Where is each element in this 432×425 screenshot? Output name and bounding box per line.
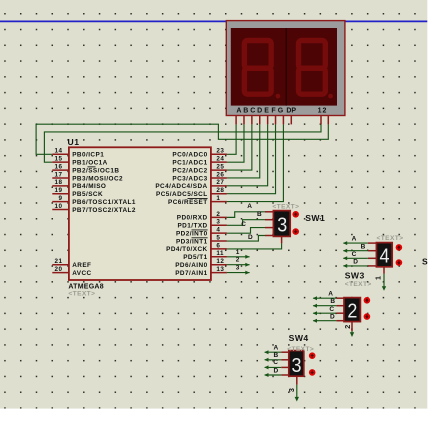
svg-text:PD0/RXD: PD0/RXD: [177, 215, 208, 222]
node D arrow at SW3: [343, 264, 347, 268]
svg-text:3: 3: [292, 355, 302, 377]
svg-text:PC4/ADC4/SDA: PC4/ADC4/SDA: [155, 183, 207, 190]
wire SW3 D lead: [343, 265, 367, 267]
pin PD0/RXD (pin 2) stub: [211, 216, 227, 218]
svg-text:<TEXT>: <TEXT>: [272, 204, 299, 211]
pin PD6/AIN0 (pin 12) stub: [211, 264, 227, 266]
svg-text:11: 11: [216, 250, 224, 257]
node 1 terminal arrow: [245, 255, 249, 259]
SW4 increment button: [309, 352, 316, 359]
svg-text:9: 9: [58, 195, 62, 202]
svg-text:B: B: [274, 352, 279, 359]
wire PD2 to SW1 C: [227, 228, 265, 234]
SW2 decrement button: [364, 313, 371, 320]
wire terminal 2 from PD6: [227, 264, 250, 266]
pin SW3 D stub: [368, 265, 377, 267]
svg-text:PD2/INT0: PD2/INT0: [176, 230, 208, 237]
node C arrow at SW4: [264, 365, 268, 369]
svg-text:B: B: [243, 107, 248, 114]
svg-text:PC3/ADC3: PC3/ADC3: [172, 175, 207, 182]
svg-text:12: 12: [216, 258, 224, 265]
pin PC2/ADC2 (pin 25) stub: [211, 169, 227, 171]
svg-text:PD4/T0/XCK: PD4/T0/XCK: [166, 246, 207, 253]
svg-text:19: 19: [54, 187, 62, 194]
pin PD4/T0/XCK (pin 6) stub: [211, 248, 227, 250]
node 2 down arrow at SW2: [350, 332, 354, 337]
overline SS on PB2: [88, 166, 96, 168]
svg-text:PB2/SS/OC1B: PB2/SS/OC1B: [72, 167, 119, 174]
svg-text:1: 1: [373, 276, 382, 280]
node A arrow at SW2: [313, 296, 317, 300]
pin SW3 A stub: [368, 242, 377, 244]
svg-text:PB7/TOSC2/XTAL2: PB7/TOSC2/XTAL2: [72, 207, 136, 214]
svg-text:<TEXT>: <TEXT>: [345, 281, 372, 288]
svg-text:AREF: AREF: [72, 262, 91, 269]
wire display F to PC5: [227, 124, 276, 193]
wire SW3 C lead: [343, 257, 367, 259]
wire SW2 common terminal 2: [351, 331, 353, 336]
pin SW1 D stub: [265, 235, 273, 237]
svg-text:D: D: [353, 259, 358, 266]
svg-text:A: A: [236, 107, 241, 114]
svg-text:<TEXT>: <TEXT>: [377, 235, 404, 242]
svg-text:14: 14: [54, 148, 62, 155]
svg-text:C: C: [352, 251, 357, 258]
wire display G to PC6: [227, 124, 284, 201]
svg-text:PC5/ADC5/SCL: PC5/ADC5/SCL: [156, 191, 208, 198]
node B arrow at SW2: [313, 304, 317, 308]
wire PB0 to display digit-2 common: [36, 124, 328, 154]
pin SW4 common stub: [296, 376, 298, 385]
pin PD2/INT0 (pin 4) stub: [211, 232, 227, 234]
SW3 increment button: [396, 244, 403, 251]
svg-text:PB5/SCK: PB5/SCK: [72, 191, 103, 198]
pin SW1 common stub: [281, 236, 283, 243]
wire SW3 B lead: [343, 250, 367, 252]
pin PC6/RESET (pin 1) stub: [211, 201, 227, 203]
svg-text:PC1/ADC1: PC1/ADC1: [172, 159, 207, 166]
wire SW4 B lead: [265, 359, 282, 361]
svg-text:2: 2: [347, 301, 357, 323]
node 3 down arrow at SW4: [295, 397, 299, 402]
pin PB3/MOSI/OC2 (pin 17) stub: [52, 177, 69, 179]
svg-text:2: 2: [236, 257, 240, 264]
svg-text:D: D: [257, 107, 262, 114]
wire SW1 common to PD4: [227, 243, 282, 249]
wire PD3 to SW1 D: [227, 236, 265, 242]
node C arrow at SW2: [313, 311, 317, 315]
switch SW4 body: [289, 351, 304, 377]
switch SW2 body: [344, 298, 360, 322]
svg-text:PD5/T1: PD5/T1: [183, 254, 207, 261]
pin SW3 B stub: [368, 250, 377, 252]
svg-text:17: 17: [54, 171, 62, 178]
svg-text:AVCC: AVCC: [72, 270, 91, 277]
pin PB4/MISO (pin 18) stub: [52, 185, 69, 187]
pin SW4 A stub: [281, 351, 289, 353]
svg-text:3: 3: [277, 215, 287, 237]
svg-text:PC2/ADC2: PC2/ADC2: [172, 167, 207, 174]
wire display C to PC2: [227, 124, 252, 170]
svg-text:PB0/ICP1: PB0/ICP1: [72, 152, 104, 159]
svg-text:18: 18: [54, 179, 62, 186]
svg-text:28: 28: [216, 187, 224, 194]
node D arrow at SW2: [313, 319, 317, 323]
svg-text:4: 4: [216, 227, 220, 234]
svg-text:13: 13: [216, 266, 224, 273]
svg-text:B: B: [330, 298, 335, 305]
svg-text:C: C: [250, 107, 255, 114]
pin PB2/SS/OC1B (pin 16) stub: [52, 169, 69, 171]
pin PB6/TOSC1/XTAL1 (pin 9) stub: [52, 201, 69, 203]
svg-text:D: D: [248, 234, 253, 241]
svg-text:D: D: [274, 367, 279, 374]
pin SW2 B stub: [336, 305, 344, 307]
wire display E to PC4: [227, 124, 268, 185]
svg-text:PB6/TOSC1/XTAL1: PB6/TOSC1/XTAL1: [72, 199, 136, 206]
node 3 terminal arrow: [245, 271, 249, 275]
wire SW3 common terminal 1: [383, 274, 385, 287]
wire display B to PC1: [227, 124, 244, 162]
svg-text:2: 2: [343, 325, 352, 329]
svg-text:PB4/MISO: PB4/MISO: [72, 183, 106, 190]
pin PB5/SCK (pin 19) stub: [52, 193, 69, 195]
pin PB1/OC1A (pin 15) stub: [52, 161, 69, 163]
display pin D stub: [259, 116, 261, 125]
pin PC4/ADC4/SDA (pin 27) stub: [211, 185, 227, 187]
svg-text:3: 3: [287, 388, 296, 392]
display digit 1 decimal point: [276, 94, 281, 99]
pin PB7/TOSC2/XTAL2 (pin 10) stub: [52, 208, 69, 210]
pin PD7/AIN1 (pin 13) stub: [211, 272, 227, 274]
wire terminal 3 from PD7: [227, 272, 250, 274]
switch SW1 body: [273, 211, 290, 237]
wire SW4 D lead: [265, 374, 282, 376]
pin SW2 A stub: [336, 297, 344, 299]
svg-text:G: G: [278, 107, 284, 114]
display red panel: [231, 28, 337, 106]
svg-text:SW3: SW3: [345, 271, 365, 281]
svg-text:PD1/TXD: PD1/TXD: [177, 223, 207, 230]
pin PC1/ADC1 (pin 24) stub: [211, 161, 227, 163]
display pin C stub: [251, 116, 253, 125]
svg-text:B: B: [257, 211, 262, 218]
SW1 increment button: [292, 211, 299, 218]
overline INT0 on PD2: [192, 229, 208, 231]
svg-text:ATMEGA8: ATMEGA8: [68, 283, 103, 290]
svg-text:B: B: [361, 243, 366, 250]
node A arrow at SW4: [264, 350, 268, 354]
svg-text:20: 20: [54, 266, 62, 273]
pin PD1/TXD (pin 3) stub: [211, 224, 227, 226]
display digit 2 segments: [299, 41, 326, 95]
SW4 decrement button: [309, 369, 316, 376]
svg-text:C: C: [273, 359, 278, 366]
svg-text:1: 1: [318, 107, 322, 114]
svg-text:3: 3: [236, 265, 240, 272]
svg-text:U1: U1: [68, 137, 80, 147]
pin SW2 C stub: [336, 312, 344, 314]
pin SW1 C stub: [265, 227, 273, 229]
SW3 decrement button: [396, 259, 403, 266]
svg-text:PC0/ADC0: PC0/ADC0: [172, 152, 207, 159]
wire SW3 A lead: [343, 242, 367, 244]
svg-text:F: F: [271, 107, 276, 114]
overline RESET on PC6: [188, 197, 208, 199]
svg-text:25: 25: [216, 163, 224, 170]
op-amp U1 ATMEGA8 microcontroller body: [69, 147, 211, 280]
display digit 2 decimal point: [328, 94, 333, 99]
svg-text:A: A: [274, 345, 279, 352]
display pin 1 stub: [320, 116, 322, 125]
display pin 2 stub: [327, 116, 329, 125]
wire SW2 C lead: [313, 312, 336, 314]
wire SW2 B lead: [313, 305, 336, 307]
svg-text:10: 10: [54, 203, 62, 210]
display pin B stub: [243, 116, 245, 125]
pin PC3/ADC3 (pin 26) stub: [211, 177, 227, 179]
svg-text:2: 2: [323, 107, 327, 114]
svg-text:26: 26: [216, 171, 224, 178]
node A arrow at SW3: [343, 241, 347, 245]
pin PD3/INT1 (pin 5) stub: [211, 240, 227, 242]
svg-text:PC6/RESET: PC6/RESET: [168, 199, 208, 206]
svg-text:PB3/MOSI/OC2: PB3/MOSI/OC2: [72, 175, 123, 182]
wire SW4 common terminal 3: [296, 385, 298, 397]
svg-text:6: 6: [216, 242, 220, 249]
svg-text:1: 1: [236, 249, 240, 256]
display pin E stub: [267, 116, 269, 125]
pin SW2 common stub: [351, 322, 353, 331]
pin SW2 D stub: [336, 320, 344, 322]
svg-text:DP: DP: [286, 107, 296, 114]
svg-text:E: E: [264, 107, 269, 114]
svg-text:23: 23: [216, 148, 224, 155]
pin PC0/ADC0 (pin 23) stub: [211, 153, 227, 155]
svg-text:2: 2: [216, 211, 220, 218]
svg-text:4: 4: [380, 246, 390, 268]
pin AVCC (pin 20) stub: [52, 272, 69, 274]
display pin F stub: [275, 116, 277, 125]
display pin A stub: [235, 116, 237, 125]
pin PB0/ICP1 (pin 14) stub: [52, 153, 69, 155]
svg-text:PD7/AIN1: PD7/AIN1: [175, 270, 207, 277]
wire PD1 to SW1 B: [227, 220, 265, 226]
wire SW4 C lead: [265, 366, 282, 368]
wire PD0 to SW1 A: [227, 212, 265, 218]
display pin G stub: [282, 116, 284, 125]
svg-text:24: 24: [216, 156, 224, 163]
pin SW1 A stub: [265, 211, 273, 213]
svg-text:SW4: SW4: [289, 333, 309, 343]
svg-text:16: 16: [54, 163, 62, 170]
wire SW2 D lead: [313, 320, 336, 322]
node B arrow at SW4: [264, 358, 268, 362]
wire display D to PC3: [227, 124, 260, 178]
svg-text:SW1: SW1: [305, 213, 325, 223]
svg-text:21: 21: [54, 258, 62, 265]
pin PD5/T1 (pin 11) stub: [211, 256, 227, 258]
overline INT1 on PD3: [192, 237, 208, 239]
wire PB1 to display digit-1 common: [44, 124, 321, 162]
wire SW2 A lead: [313, 297, 336, 299]
wire display A to PC0: [227, 124, 236, 154]
svg-text:D: D: [330, 314, 335, 321]
display digit divider: [285, 28, 287, 106]
pin SW3 C stub: [368, 257, 377, 259]
node B arrow at SW3: [343, 249, 347, 253]
pin SW3 common stub: [383, 267, 385, 274]
svg-text:A: A: [352, 235, 357, 242]
display digit 1 segments: [244, 41, 271, 95]
pin SW1 B stub: [265, 219, 273, 221]
svg-text:C: C: [329, 306, 334, 313]
pin SW4 B stub: [281, 359, 289, 361]
svg-text:A: A: [247, 203, 252, 210]
7-segment display module frame: [226, 21, 345, 116]
SW2 increment button: [364, 297, 371, 304]
SW1 decrement button: [292, 228, 299, 235]
wire SW4 A lead: [265, 351, 282, 353]
svg-text:PD6/AIN0: PD6/AIN0: [175, 262, 207, 269]
node C arrow at SW3: [343, 256, 347, 260]
node 2 terminal arrow: [245, 263, 249, 267]
pin PC5/ADC5/SCL (pin 28) stub: [211, 193, 227, 195]
display pin DP stub: [290, 116, 292, 125]
pin AREF (pin 21) stub: [52, 264, 69, 266]
svg-text:PB1/OC1A: PB1/OC1A: [72, 159, 108, 166]
node D arrow at SW4: [264, 373, 268, 377]
sheet border line: [0, 20, 427, 22]
svg-text:C: C: [241, 221, 246, 228]
switch SW3 body: [376, 243, 392, 267]
svg-text:27: 27: [216, 179, 224, 186]
node 1 down arrow at SW3: [382, 286, 386, 291]
svg-text:3: 3: [216, 219, 220, 226]
pin SW4 D stub: [281, 374, 289, 376]
pin SW4 C stub: [281, 366, 289, 368]
wire terminal 1 from PD5: [227, 256, 250, 258]
svg-text:5: 5: [216, 234, 220, 241]
svg-text:15: 15: [54, 156, 62, 163]
svg-text:<TEXT>: <TEXT>: [68, 291, 95, 298]
svg-text:A: A: [328, 291, 333, 298]
svg-text:PD3/INT1: PD3/INT1: [176, 238, 208, 245]
svg-text:1: 1: [216, 195, 220, 202]
svg-text:<TEXT>: <TEXT>: [287, 346, 314, 353]
